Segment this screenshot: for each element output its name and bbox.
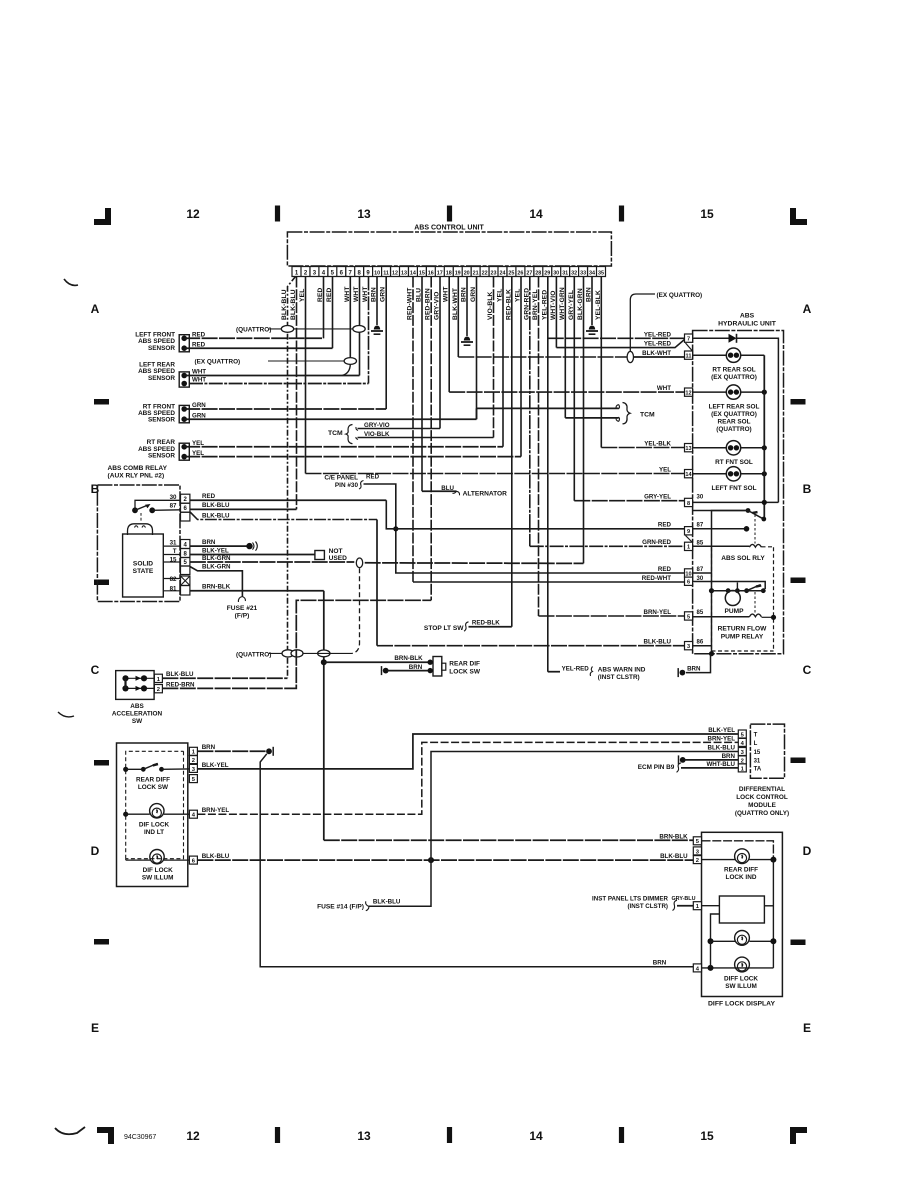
wire hyd pin10 87 row (693, 572, 712, 574)
wire YEL-RED2 to hyd7 (556, 340, 684, 348)
pump motor M (725, 591, 740, 606)
wire LR WHT 1 (184, 375, 359, 377)
svg-text:E: E (803, 1021, 811, 1035)
svg-text:18: 18 (446, 271, 452, 277)
wire pin15 BLU (421, 277, 423, 492)
sw unit pin box 5 (189, 775, 197, 783)
svg-text:(QUATTRO): (QUATTRO) (236, 326, 271, 333)
svg-text:ACCELERATION: ACCELERATION (112, 711, 163, 718)
svg-text:12: 12 (186, 207, 200, 221)
wire relay BLK-BLU 87 (190, 508, 297, 510)
svg-text:LOCK SW: LOCK SW (138, 784, 169, 791)
svg-text:TCM: TCM (328, 430, 343, 437)
svg-text:BLK-BLU: BLK-BLU (202, 502, 230, 509)
wire hyd pin3 86 row (693, 645, 712, 647)
svg-text:30: 30 (553, 271, 559, 277)
svg-text:DIF LOCK: DIF LOCK (139, 822, 170, 829)
display bottom lamp (735, 957, 750, 972)
svg-text:YEL-RED: YEL-RED (541, 290, 548, 320)
wire pin31 WHT-GRN (564, 277, 566, 418)
margin dash left (94, 760, 109, 766)
svg-text:12: 12 (392, 271, 398, 277)
pump relay contacts (709, 588, 714, 593)
svg-text:(EX QUATTRO): (EX QUATTRO) (195, 358, 241, 365)
svg-text:2: 2 (157, 687, 160, 693)
relay internal links (152, 509, 180, 512)
svg-text:ALTERNATOR: ALTERNATOR (463, 490, 508, 497)
wire YEL-BLK to hyd13 (601, 447, 684, 449)
svg-text:A: A (91, 302, 100, 316)
svg-text:15: 15 (700, 1129, 714, 1143)
rt rear ABS speed sensor connector (179, 443, 189, 460)
wire pin9 WHT (368, 277, 370, 384)
svg-text:REAR SOL: REAR SOL (717, 419, 750, 426)
svg-text:ABS: ABS (130, 703, 144, 710)
svg-text:(EX QUATTRO): (EX QUATTRO) (711, 374, 757, 381)
svg-text:SENSOR: SENSOR (148, 375, 175, 382)
svg-text:BRN: BRN (586, 287, 593, 302)
svg-text:C/E PANEL: C/E PANEL (324, 475, 358, 482)
svg-text:T: T (173, 548, 177, 555)
relay pin box 4 (181, 540, 190, 549)
svg-text:RED-BRN: RED-BRN (166, 681, 195, 688)
svg-text:15: 15 (170, 557, 177, 564)
svg-text:RED: RED (366, 474, 380, 481)
hydraulic pin box 6 (685, 577, 693, 585)
relay switch contact (132, 507, 138, 513)
column tick (447, 206, 452, 222)
accel sw pin box 2 (154, 685, 162, 693)
fuse 14 hook (366, 901, 369, 911)
ecm hook (677, 763, 682, 772)
wire sw BRN row (197, 750, 266, 752)
wire hyd pin1 85 row (693, 545, 750, 547)
wire C/E RED (364, 484, 685, 573)
svg-text:28: 28 (535, 271, 541, 277)
wire relay BLK-BLU second (190, 512, 377, 520)
svg-text:BLK-YEL: BLK-YEL (708, 727, 735, 734)
module pin box 2 (738, 756, 746, 764)
svg-text:22: 22 (482, 271, 488, 277)
svg-text:E: E (91, 1021, 99, 1035)
svg-text:BRN-YEL: BRN-YEL (202, 807, 230, 814)
svg-text:(AUX RLY PNL #2): (AUX RLY PNL #2) (108, 473, 165, 480)
fuse 21 hook (238, 597, 245, 603)
junction BLK-BLU (428, 857, 434, 863)
svg-text:PIN #30: PIN #30 (335, 482, 359, 489)
wire YEL-RED warn ind stub (548, 671, 560, 673)
wire pin23 VIO-BLK (493, 277, 495, 438)
svg-text:14: 14 (410, 271, 416, 277)
corner mark bottom-right (790, 1127, 807, 1144)
hydraulic pin box 5 (685, 612, 693, 620)
svg-text:ABS SOL RLY: ABS SOL RLY (721, 555, 765, 562)
svg-text:BLK-YEL: BLK-YEL (202, 547, 229, 554)
svg-text:IND LT: IND LT (144, 829, 164, 836)
sw unit pin box 2 (189, 756, 197, 764)
wire hyd pin6 30 row (693, 582, 766, 590)
svg-text:REAR DIF: REAR DIF (449, 660, 480, 667)
solid state box (123, 534, 164, 597)
wire WHT-GRN to TCM right lower (565, 417, 618, 419)
wire sw BRN-YEL row (197, 742, 738, 814)
svg-text:C: C (91, 663, 100, 677)
svg-text:(QUATTRO ONLY): (QUATTRO ONLY) (735, 810, 789, 817)
wire relay BRN 31 to buzzer (190, 545, 247, 547)
wire GRY-BLU (677, 905, 693, 907)
svg-text:BLU: BLU (416, 288, 423, 302)
svg-text:BLK-WHT: BLK-WHT (642, 350, 671, 357)
dimmer hook (673, 900, 678, 910)
svg-text:RED: RED (317, 287, 324, 302)
wire RED-WHT to hyd6 (413, 581, 685, 583)
svg-text:85: 85 (697, 610, 704, 616)
svg-text:WHT: WHT (344, 286, 351, 302)
margin artifact (58, 712, 74, 717)
wire relay BLK-GRN 15 (190, 561, 354, 563)
hydraulic pin diagonal 9-1 (686, 536, 693, 543)
wire pin28 BRN-YEL (538, 277, 540, 617)
connector oval on pin1 wire (281, 326, 293, 333)
wire hyd pin7 row (693, 337, 729, 339)
svg-text:YEL: YEL (299, 289, 306, 302)
svg-text:ABS: ABS (740, 313, 755, 320)
wire LF RED 2 (184, 347, 332, 349)
svg-text:WHT: WHT (353, 286, 360, 302)
svg-text:BRN: BRN (202, 744, 216, 751)
svg-text:(QUATTRO): (QUATTRO) (236, 651, 271, 658)
svg-text:87: 87 (697, 567, 704, 573)
wire BRN diagonal drop (260, 754, 693, 967)
display pin box 4 (693, 964, 701, 972)
svg-text:81: 81 (170, 586, 177, 593)
splice for BRN (381, 666, 383, 675)
wire RR YEL 2 (184, 456, 521, 458)
svg-text:31: 31 (562, 271, 568, 277)
wire pin33 BLK-GRN (583, 277, 585, 564)
wire GRN-RED to hyd1 (530, 545, 685, 547)
svg-text:(F/P): (F/P) (235, 613, 250, 620)
ground G pin20 (464, 337, 470, 341)
svg-text:8: 8 (687, 501, 690, 507)
hydraulic pin box 7 (685, 334, 693, 342)
wire hyd unit BRN drop (686, 654, 711, 673)
ABS sol rly switch (746, 508, 751, 513)
wire pin7 curve into LR WHT1 (342, 364, 350, 375)
connector oval on BRN-BLK (318, 650, 330, 657)
wire BLK-WHT tail (634, 356, 685, 358)
wire hyd pin8 30 row (693, 501, 779, 503)
svg-text:LEFT REAR SOL: LEFT REAR SOL (709, 404, 760, 411)
wire BLU (422, 490, 457, 492)
wire hyd pin5 85 row (693, 616, 750, 618)
display pin box 2 (693, 856, 701, 864)
wire display pin1 to block (702, 905, 720, 907)
svg-text:GRY-BLU: GRY-BLU (671, 896, 695, 902)
svg-text:GRY-YEL: GRY-YEL (568, 290, 575, 320)
svg-text:16: 16 (428, 271, 434, 277)
svg-text:BRN: BRN (461, 287, 468, 302)
stop lt hook (464, 622, 469, 631)
svg-text:15: 15 (754, 750, 761, 756)
svg-text:B: B (803, 482, 812, 496)
relay pin box X (181, 576, 190, 586)
svg-text:BRN-BLK: BRN-BLK (202, 584, 231, 591)
svg-text:BRN-YEL: BRN-YEL (532, 289, 539, 320)
svg-text:13: 13 (357, 1129, 371, 1143)
wire ex-quattro link (268, 360, 345, 362)
svg-text:DIFFERENTIAL: DIFFERENTIAL (739, 786, 785, 793)
svg-text:11: 11 (686, 353, 692, 359)
diode CR1 (729, 334, 737, 343)
svg-text:86: 86 (697, 640, 704, 646)
svg-text:YEL-RED: YEL-RED (562, 666, 590, 673)
margin dash left (94, 580, 109, 586)
wire ex-quattro right drop (630, 294, 655, 351)
svg-text:RETURN FLOW: RETURN FLOW (718, 626, 767, 633)
svg-text:WHT-BLU: WHT-BLU (706, 761, 735, 768)
relay pin box blank (181, 586, 190, 596)
hydraulic pin box 14 (685, 470, 693, 478)
ABS hydraulic unit box (693, 331, 784, 654)
module pin box 4 (738, 738, 746, 746)
wire RED-BLK (469, 626, 512, 628)
svg-text:12: 12 (186, 1129, 200, 1143)
svg-text:19: 19 (455, 271, 461, 277)
svg-text:A: A (803, 302, 812, 316)
wire sol rly 30 feed (712, 511, 749, 654)
svg-text:RED: RED (658, 566, 672, 573)
splice on BRN (677, 668, 679, 677)
svg-text:ECM PIN B9: ECM PIN B9 (638, 764, 675, 771)
wire accel RED-BRN (162, 600, 431, 688)
wire BRN to rear dif lock sw (387, 670, 429, 672)
display resistor block (719, 896, 764, 923)
svg-text:20: 20 (464, 271, 470, 277)
svg-text:27: 27 (526, 271, 532, 277)
svg-text:33: 33 (580, 271, 586, 277)
svg-text:GRN: GRN (380, 287, 387, 302)
connector oval on pin8 wire (353, 326, 365, 333)
wire quattro lower link (269, 652, 352, 654)
wire BRN-BLK to rear dif lock sw (324, 661, 429, 663)
wire relay RED 30 (190, 499, 386, 501)
wire block stub left-bottom (711, 914, 720, 941)
wire hyd pin9 87 stub (693, 528, 747, 530)
svg-text:GRN-RED: GRN-RED (642, 539, 671, 546)
hydraulic pin box 9 (685, 527, 693, 535)
wire pin17 GRY-VIO (439, 277, 441, 429)
svg-text:BRN-YEL: BRN-YEL (708, 735, 736, 742)
svg-text:BLK-WHT: BLK-WHT (452, 288, 459, 320)
margin dash right (791, 758, 806, 764)
hydraulic pin box 10 (685, 569, 693, 577)
svg-text:(EX QUATTRO): (EX QUATTRO) (657, 292, 703, 299)
column tick (275, 1127, 280, 1143)
column tick (619, 206, 624, 222)
wire pin35 YEL-BLK (600, 277, 602, 448)
svg-text:SENSOR: SENSOR (148, 453, 175, 460)
relay pin box 2 (181, 494, 190, 503)
svg-text:YEL-RED: YEL-RED (644, 331, 672, 338)
svg-text:TA: TA (754, 767, 762, 773)
wire pin10 BRN to ground (376, 277, 378, 326)
svg-text:RED-BRN: RED-BRN (425, 288, 432, 320)
hydraulic pin diagonal 7-11 (686, 343, 693, 351)
wire solenoid common vertical (763, 355, 765, 519)
solenoid LEFT FNT SOL (693, 473, 727, 475)
pump relay coil (749, 614, 761, 617)
connector oval pair on BLK-BLU wires (282, 650, 294, 657)
svg-text:BRN-YEL: BRN-YEL (644, 609, 672, 616)
svg-text:BLK-BLU: BLK-BLU (202, 512, 230, 519)
wire BLK-BLU second vertical to hyd3 (376, 520, 378, 646)
column tick (619, 1127, 624, 1143)
svg-text:RED: RED (326, 287, 333, 302)
wire RR YEL 1 (184, 446, 503, 448)
hydraulic pin box 8 (685, 498, 693, 506)
svg-text:BLK-BLU: BLK-BLU (166, 671, 194, 678)
svg-text:BLK-BLU: BLK-BLU (290, 289, 297, 320)
svg-text:34: 34 (589, 271, 595, 277)
wire pin1 BLK-BLU diagonal (288, 277, 296, 679)
rt front ABS speed sensor connector (179, 405, 189, 422)
wire module BRN (685, 759, 739, 761)
wire pin14 RED-WHT (412, 277, 414, 583)
svg-text:YEL: YEL (659, 466, 671, 473)
wire BLK-GRN link to pin33 (365, 562, 584, 565)
wire display BRN-BLK inner (702, 841, 774, 860)
wire YEL to hyd14 (306, 473, 685, 475)
svg-text:STOP LT SW: STOP LT SW (424, 625, 464, 632)
accel sw contact row1 (126, 677, 155, 679)
rear dif lock sw connector (433, 657, 442, 677)
svg-text:DIFF LOCK DISPLAY: DIFF LOCK DISPLAY (708, 1000, 775, 1007)
svg-text:GRY-VIO: GRY-VIO (364, 422, 390, 429)
wire BLK-WHT to hyd11 (458, 356, 627, 358)
wire pin26 YEL (520, 277, 522, 457)
wire BRN-YEL to hyd5 (539, 615, 685, 617)
wire RF GRN 2 (184, 418, 476, 420)
svg-text:BLK-BLU: BLK-BLU (708, 745, 736, 752)
corner mark top-right (790, 208, 807, 225)
svg-text:SW ILLUM: SW ILLUM (142, 874, 174, 881)
svg-text:SENSOR: SENSOR (148, 345, 175, 352)
svg-text:LOCK CONTROL: LOCK CONTROL (736, 794, 788, 801)
svg-text:WHT: WHT (443, 286, 450, 302)
svg-text:87: 87 (170, 503, 177, 510)
svg-text:14: 14 (529, 1129, 543, 1143)
wire pin27 GRN-RED (529, 277, 531, 547)
svg-text:ABS WARN IND: ABS WARN IND (598, 667, 646, 674)
svg-text:ABS CONTROL UNIT: ABS CONTROL UNIT (414, 225, 484, 232)
svg-text:RT FNT SOL: RT FNT SOL (715, 459, 753, 466)
wire RF GRN 1 (184, 408, 386, 410)
wire relay RED down to hydraulic 9 (386, 500, 684, 529)
hydraulic pin box 13 (685, 444, 693, 452)
ABS control unit pin row (292, 267, 606, 277)
svg-text:RED: RED (658, 522, 672, 529)
svg-text:INST PANEL LTS DIMMER: INST PANEL LTS DIMMER (592, 896, 668, 903)
alternator hook (453, 491, 460, 495)
svg-text:DIF LOCK: DIF LOCK (143, 867, 174, 874)
svg-text:1: 1 (687, 545, 690, 551)
connector oval BLK-GRN quattro (356, 558, 362, 568)
wire pin34 BRN to ground (591, 277, 593, 326)
relay pin box blank (181, 512, 190, 521)
hydraulic pin box 3 (685, 642, 693, 650)
wire BLK-BLU down to fuse14 (369, 860, 431, 906)
sw unit pin box 1 (189, 747, 197, 755)
svg-text:WHT: WHT (362, 286, 369, 302)
wire YEL-RED to hyd7 (548, 337, 685, 339)
svg-text:SW: SW (132, 718, 143, 725)
hydraulic pin box 11 (685, 351, 693, 359)
svg-text:26: 26 (517, 271, 523, 277)
svg-text:T: T (754, 733, 758, 739)
svg-text:13: 13 (401, 271, 407, 277)
svg-text:L: L (754, 741, 758, 747)
svg-text:LOCK SW: LOCK SW (449, 668, 481, 675)
pump relay actuation dashes (754, 592, 756, 613)
left rear ABS speed sensor connector (179, 372, 189, 387)
display pin box 1 (693, 902, 701, 910)
svg-text:PUMP: PUMP (724, 608, 744, 615)
accel sw pin box 1 (154, 674, 162, 682)
svg-text:15: 15 (419, 271, 425, 277)
svg-text:2: 2 (696, 858, 699, 864)
ABS SOL RLY dashed box (712, 547, 774, 651)
module pin box 1 (738, 764, 746, 772)
svg-text:23: 23 (491, 271, 497, 277)
wire pin7 WHT (349, 277, 351, 358)
sol rly actuation dashes (754, 515, 756, 544)
column tick (447, 1127, 452, 1143)
svg-text:LEFT FNT SOL: LEFT FNT SOL (711, 485, 756, 492)
svg-text:30: 30 (170, 494, 177, 501)
svg-text:RT REAR SOL: RT REAR SOL (712, 367, 755, 374)
svg-text:FUSE #14 (F/P): FUSE #14 (F/P) (317, 904, 364, 911)
wire BRN-BLK vertical to D row (323, 591, 325, 840)
wire pin18 WHT (448, 277, 450, 393)
module pin box 5 (738, 730, 746, 738)
wire display pin4 row (702, 967, 774, 969)
ABS comb relay box (97, 485, 180, 602)
svg-text:GRY-YEL: GRY-YEL (644, 494, 671, 501)
wire module WHT-BLU (681, 767, 738, 769)
svg-text:BLK-BLU: BLK-BLU (281, 289, 288, 320)
svg-text:17: 17 (437, 271, 443, 277)
wire BLK-BLU to hyd3 (377, 645, 685, 647)
wire pin11 GRN (385, 277, 387, 410)
svg-text:BLK-GRN: BLK-GRN (577, 288, 584, 320)
svg-text:25: 25 (508, 271, 514, 277)
svg-text:5: 5 (687, 614, 690, 620)
svg-text:94C30967: 94C30967 (124, 1134, 156, 1141)
diff lock switch unit outer box (117, 743, 188, 887)
dif lock sw illum lamp (125, 859, 127, 860)
C/E hook (359, 481, 364, 490)
wire BLK-BLU up to module (431, 752, 738, 861)
rear diff lock sw contacts (123, 767, 128, 772)
svg-text:2: 2 (192, 758, 195, 764)
svg-text:WHT: WHT (657, 385, 671, 392)
margin artifact (64, 279, 78, 285)
svg-text:BRN: BRN (687, 665, 701, 672)
wire pin1 BLK-BLU to relay 87 (296, 277, 298, 510)
svg-text:BLK-GRN: BLK-GRN (202, 555, 231, 562)
junction BRN-BLK (321, 659, 327, 665)
